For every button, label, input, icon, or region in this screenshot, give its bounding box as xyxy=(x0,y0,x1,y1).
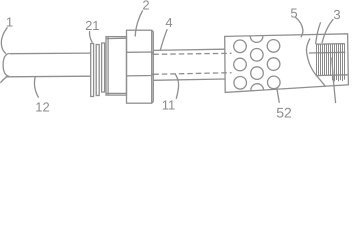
block 5 outline xyxy=(225,34,349,93)
threaded hole wall lines xyxy=(309,52,348,75)
collar (sleeve before nut) xyxy=(106,37,127,96)
section break line right xyxy=(332,58,336,104)
rod hidden line bottom (dashed) xyxy=(153,73,231,75)
shaft 12 body xyxy=(6,53,91,77)
leader for 5 xyxy=(295,17,303,37)
svg-text:5: 5 xyxy=(290,6,297,21)
leader for 4 xyxy=(160,29,167,50)
leader for 21 xyxy=(90,31,93,43)
threaded hole 3: hatch top line xyxy=(316,43,345,46)
svg-text:21: 21 xyxy=(85,18,99,33)
washer W1 xyxy=(91,44,94,97)
leader for 2 xyxy=(135,10,143,36)
svg-text:12: 12 xyxy=(35,99,49,114)
leader for 11 xyxy=(175,73,179,98)
washer W3 xyxy=(102,43,105,92)
svg-text:1: 1 xyxy=(6,15,13,30)
nut 2 body xyxy=(127,30,154,103)
rod hidden line top (dashed) xyxy=(153,53,231,54)
stray section curve xyxy=(316,22,321,44)
svg-text:4: 4 xyxy=(165,15,172,30)
leader for 52 xyxy=(277,88,280,103)
svg-text:2: 2 xyxy=(142,0,149,12)
leader for 12 xyxy=(34,77,38,98)
cutaway wavy boundary xyxy=(306,38,325,86)
leader for 3 xyxy=(322,19,333,43)
leader for 1 xyxy=(1,27,7,53)
nut 2 facet lines xyxy=(127,52,154,76)
thread hatch vertical lines xyxy=(317,44,345,82)
svg-text:52: 52 xyxy=(276,105,292,120)
svg-text:3: 3 xyxy=(333,7,340,22)
rod 4 outline xyxy=(153,49,225,80)
svg-text:11: 11 xyxy=(162,98,176,113)
shaft 12 left cap arc xyxy=(0,53,9,83)
washer W2 xyxy=(96,45,99,96)
